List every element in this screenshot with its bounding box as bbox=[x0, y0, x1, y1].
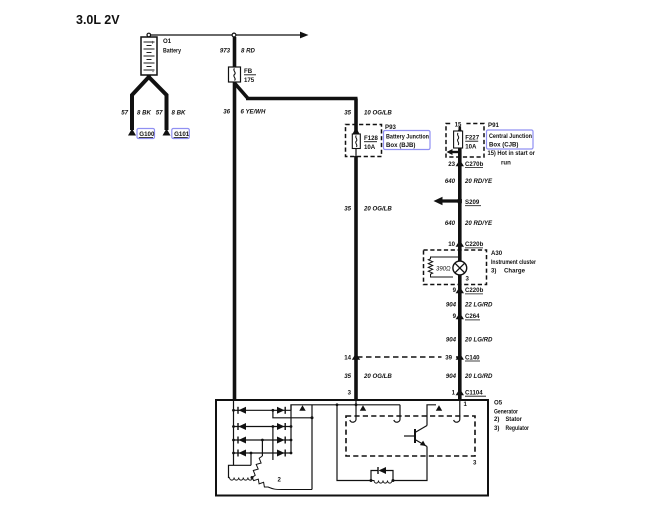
wire 2: 20 OG/LB down to generator (thick) bbox=[354, 156, 358, 399]
svg-text:P91: P91 bbox=[488, 122, 499, 129]
connector C270b bbox=[456, 160, 464, 167]
svg-text:A30: A30 bbox=[491, 250, 503, 257]
stator windings bbox=[229, 453, 252, 478]
junction dots bbox=[232, 403, 357, 454]
svg-text:G101: G101 bbox=[174, 131, 190, 138]
svg-text:20 RD/YE: 20 RD/YE bbox=[464, 220, 493, 227]
wire: diagonal FB to horizontal branch bbox=[235, 83, 249, 99]
rectifier left bus bbox=[233, 400, 235, 453]
splice S209 arrow bbox=[440, 199, 458, 202]
connector C264 bbox=[456, 313, 464, 320]
svg-text:36: 36 bbox=[223, 109, 230, 116]
collector riser with arrow bbox=[427, 405, 436, 426]
stator coil left (zigzag) bbox=[230, 478, 253, 481]
wire: row2 tap down bbox=[272, 427, 274, 461]
generator O5 box bbox=[216, 400, 488, 496]
svg-text:6 YE/WH: 6 YE/WH bbox=[241, 109, 267, 116]
wire 3: CJB down to generator bbox=[458, 148, 462, 262]
arrow right end of feed bbox=[300, 32, 309, 39]
svg-text:S209: S209 bbox=[465, 199, 480, 206]
connector C140 dashed line bbox=[357, 356, 458, 358]
svg-text:3): 3) bbox=[494, 425, 499, 432]
svg-text:390Ω: 390Ω bbox=[436, 267, 451, 273]
wire: field output line A bbox=[291, 405, 400, 411]
P91 central junction box (dashed) bbox=[446, 124, 484, 158]
A30 instrument cluster (dashed) bbox=[424, 250, 487, 285]
svg-text:+: + bbox=[151, 41, 155, 47]
wire: battery ground fork right bbox=[149, 77, 167, 130]
hook terminal 1 bbox=[350, 400, 356, 422]
connector C220b bbox=[456, 240, 464, 247]
field diode + resistor pair bbox=[371, 471, 393, 481]
hook terminal 2 bbox=[394, 405, 400, 422]
battery O1 bbox=[141, 33, 157, 75]
wire 973 8 RD (thick) bbox=[233, 37, 237, 67]
svg-text:57: 57 bbox=[156, 110, 163, 117]
svg-text:Battery: Battery bbox=[163, 47, 182, 54]
node: junction circle above 973 wire bbox=[232, 33, 236, 37]
fuse contact chevron bottom bbox=[355, 149, 357, 158]
connector C220b lower bbox=[458, 287, 462, 399]
svg-text:Central Junction: Central Junction bbox=[489, 133, 532, 140]
svg-text:C140: C140 bbox=[465, 354, 480, 361]
svg-text:35: 35 bbox=[344, 373, 351, 380]
pin 15 stub bbox=[451, 120, 465, 127]
hook terminal 3 bbox=[454, 400, 460, 422]
svg-text:8 BK: 8 BK bbox=[137, 110, 151, 117]
svg-text:10A: 10A bbox=[465, 143, 477, 150]
svg-text:3.0L 2V: 3.0L 2V bbox=[76, 13, 120, 27]
svg-text:20 LG/RD: 20 LG/RD bbox=[464, 337, 493, 344]
svg-text:F128: F128 bbox=[364, 135, 379, 142]
svg-text:Box (CJB): Box (CJB) bbox=[489, 142, 518, 149]
link box: Battery Junction Box (BJB) bbox=[384, 131, 431, 150]
stator coil 2 (diagonal up) bbox=[252, 456, 262, 478]
diodes right column (pointing right) bbox=[277, 407, 286, 457]
svg-text:20 OG/LB: 20 OG/LB bbox=[363, 373, 392, 380]
svg-text:973: 973 bbox=[220, 48, 231, 55]
svg-text:35: 35 bbox=[344, 205, 351, 212]
fuse FB 175 bbox=[229, 67, 257, 84]
wire: horizontal branch to F128 column bbox=[246, 97, 358, 101]
transistor Q (regulator) bbox=[414, 429, 416, 443]
svg-text:10A: 10A bbox=[364, 144, 376, 151]
svg-text:22 LG/RD: 22 LG/RD bbox=[464, 302, 493, 309]
svg-text:Battery Junction: Battery Junction bbox=[386, 133, 429, 140]
regulator dashed box bbox=[346, 416, 475, 456]
wire: line A drop to stator tap bbox=[311, 405, 313, 490]
svg-text:FB: FB bbox=[244, 68, 253, 75]
arrow up on line A (right) bbox=[360, 405, 366, 411]
svg-text:39: 39 bbox=[445, 354, 452, 361]
arrow: CJB feed to left bbox=[451, 151, 460, 153]
svg-text:C1104: C1104 bbox=[465, 390, 483, 397]
svg-text:640: 640 bbox=[445, 220, 456, 227]
junction dot bbox=[311, 416, 314, 419]
svg-text:14: 14 bbox=[344, 354, 351, 361]
wire lamp to box bottom bbox=[458, 275, 462, 287]
svg-text:904: 904 bbox=[446, 373, 457, 380]
P93 battery junction box (dashed) bbox=[346, 125, 382, 157]
wire: battery ground fork left bbox=[132, 75, 149, 131]
svg-text:Stator: Stator bbox=[506, 416, 523, 423]
svg-text:C270b: C270b bbox=[465, 161, 484, 168]
svg-text:10 OG/LB: 10 OG/LB bbox=[364, 110, 392, 117]
svg-text:Box (BJB): Box (BJB) bbox=[386, 142, 415, 149]
svg-text:20 LG/RD: 20 LG/RD bbox=[464, 373, 493, 380]
stator coil 3 (diagonal down) bbox=[252, 478, 312, 490]
svg-text:O5: O5 bbox=[494, 400, 503, 407]
rectifier rows bbox=[234, 409, 292, 411]
indicator lamp (charge) bbox=[453, 261, 467, 275]
ground G100 bbox=[128, 129, 136, 136]
svg-text:904: 904 bbox=[446, 302, 457, 309]
svg-text:C220b: C220b bbox=[465, 241, 484, 248]
svg-text:57: 57 bbox=[121, 110, 128, 117]
rectifier right bus bbox=[290, 405, 292, 454]
svg-text:23: 23 bbox=[448, 161, 455, 168]
svg-text:35: 35 bbox=[344, 110, 351, 117]
svg-text:Generator: Generator bbox=[494, 409, 519, 416]
svg-text:G100: G100 bbox=[139, 131, 155, 138]
svg-text:-: - bbox=[152, 70, 154, 76]
svg-text:C220b: C220b bbox=[465, 287, 484, 294]
fuse F128 10A bbox=[352, 134, 378, 151]
svg-text:8 RD: 8 RD bbox=[241, 48, 255, 55]
emitter drop bbox=[393, 447, 427, 481]
fuse contact chevron top bbox=[353, 128, 360, 134]
arrow up on line A (left) bbox=[299, 405, 305, 411]
svg-text:O1: O1 bbox=[163, 38, 172, 45]
wire: row3 tap down bbox=[261, 440, 263, 456]
wire: FB down to generator (6 YE/WH) bbox=[233, 82, 237, 399]
svg-text:8 BK: 8 BK bbox=[172, 110, 186, 117]
wire 2: 10 OG/LB down from branch (thick) bbox=[354, 99, 358, 135]
stator junction bbox=[251, 476, 254, 479]
svg-text:Charge: Charge bbox=[504, 267, 526, 274]
wire: row1 step to stator line bbox=[273, 410, 312, 418]
link box: Central Junction Box (CJB) bbox=[487, 130, 534, 149]
wire: battery top feed line bbox=[151, 34, 300, 36]
svg-text:20 OG/LB: 20 OG/LB bbox=[363, 205, 392, 212]
regulator left return bbox=[337, 405, 371, 481]
svg-text:run: run bbox=[501, 159, 511, 166]
svg-text:C264: C264 bbox=[465, 313, 480, 320]
svg-text:175: 175 bbox=[244, 77, 255, 84]
svg-text:15) Hot in start or: 15) Hot in start or bbox=[488, 150, 536, 157]
resistor 390 ohm bbox=[428, 257, 460, 277]
svg-text:3): 3) bbox=[491, 267, 496, 274]
svg-text:Regulator: Regulator bbox=[506, 425, 530, 432]
ground G101 bbox=[163, 129, 171, 136]
svg-text:Instrument cluster: Instrument cluster bbox=[491, 259, 537, 266]
svg-text:904: 904 bbox=[446, 337, 457, 344]
svg-text:2): 2) bbox=[494, 416, 499, 423]
svg-text:640: 640 bbox=[445, 178, 456, 185]
svg-text:10: 10 bbox=[448, 241, 455, 248]
diodes left column (pointing left) bbox=[237, 407, 246, 457]
fuse F227 10A bbox=[454, 131, 480, 150]
svg-text:20 RD/YE: 20 RD/YE bbox=[464, 178, 493, 185]
svg-text:F227: F227 bbox=[465, 135, 480, 142]
